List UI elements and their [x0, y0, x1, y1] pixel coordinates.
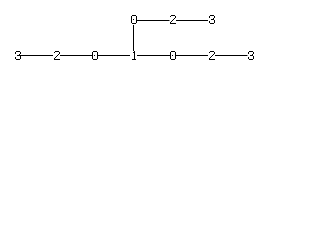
- node 0 (bottom, 5th): [170, 51, 176, 60]
- wire vertical connector (top 0 to bottom 1): [133, 25, 134, 51]
- wire bottom segment 5: [176, 55, 208, 56]
- wire bottom segment 6: [215, 55, 248, 56]
- wire bottom segment 4: [137, 55, 170, 56]
- wire bottom segment 2: [60, 55, 92, 56]
- node 0 (top row): [131, 15, 137, 24]
- node 2 (bottom, 2nd): [54, 51, 60, 60]
- wire bottom segment 1: [20, 55, 53, 56]
- wire bottom segment 3: [98, 55, 130, 56]
- node 3 (bottom left): [15, 51, 21, 60]
- node 2 (bottom, 6th): [209, 51, 215, 60]
- wire top segment 2: [176, 20, 208, 21]
- node 2 (top row): [170, 15, 176, 24]
- node 1 (bottom center): [132, 51, 136, 60]
- node 3 (bottom right): [248, 51, 254, 60]
- node 0 (bottom, 3rd): [92, 51, 98, 60]
- node 3 (top row): [209, 15, 215, 24]
- wire top segment 1: [137, 20, 170, 21]
